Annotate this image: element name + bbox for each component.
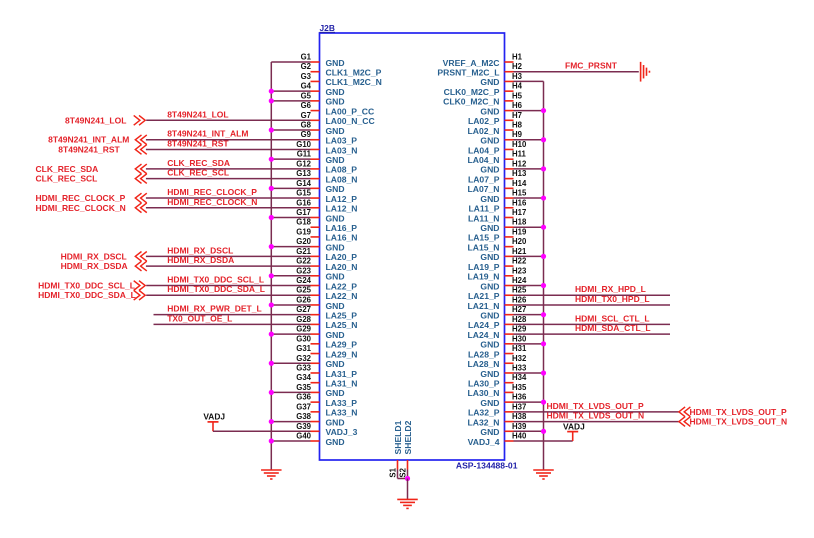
connector body J2B [320, 33, 505, 460]
junction dot H12 [541, 166, 546, 171]
wire GND H6 [514, 110, 544, 112]
svg-text:CLK_REC_SDA: CLK_REC_SDA [167, 158, 230, 168]
pin H8 stub [505, 129, 514, 131]
junction dot G5 [269, 98, 274, 103]
svg-text:G33: G33 [296, 363, 311, 372]
svg-text:HDMI_RX_DSCL: HDMI_RX_DSCL [61, 251, 127, 261]
pin H40 stub [505, 440, 514, 442]
svg-text:GND: GND [326, 359, 345, 369]
svg-text:GND: GND [326, 155, 345, 165]
pin H20 stub [505, 246, 514, 248]
svg-text:LA02_P: LA02_P [468, 116, 500, 126]
svg-text:HDMI_RX_HPD_L: HDMI_RX_HPD_L [575, 284, 646, 294]
svg-text:LA08_P: LA08_P [326, 165, 358, 175]
svg-text:VADJ_3: VADJ_3 [326, 427, 358, 437]
svg-text:LA19_P: LA19_P [468, 262, 500, 272]
wire GND G20 [271, 246, 310, 248]
pin G6 stub [311, 110, 320, 112]
svg-text:H34: H34 [512, 373, 527, 382]
svg-text:LA03_N: LA03_N [326, 145, 358, 155]
pin G16 stub [311, 207, 320, 209]
wire GND H15 [514, 197, 544, 199]
svg-text:H8: H8 [512, 121, 523, 130]
pin G26 stub [311, 304, 320, 306]
pin G36 stub [311, 401, 320, 403]
pin H16 stub [505, 207, 514, 209]
wire HDMI_TX0_DDC_SCL_L to G24 [146, 285, 310, 287]
svg-text:VADJ_4: VADJ_4 [468, 437, 500, 447]
wire shield join [398, 478, 408, 480]
svg-text:H9: H9 [512, 130, 523, 139]
pin G15 stub [311, 197, 320, 199]
svg-text:G4: G4 [301, 82, 312, 91]
pin G30 stub [311, 343, 320, 345]
pin G39 stub [311, 430, 320, 432]
wire TX0_OUT_OE_L to G28 [154, 323, 311, 325]
svg-text:CLK1_M2C_N: CLK1_M2C_N [326, 77, 382, 87]
svg-text:G37: G37 [296, 402, 311, 411]
svg-text:8T49N241_RST: 8T49N241_RST [167, 138, 229, 148]
svg-text:H36: H36 [512, 393, 527, 402]
svg-text:G24: G24 [296, 276, 311, 285]
junction dot H9 [541, 137, 546, 142]
pin H30 stub [505, 343, 514, 345]
svg-text:H21: H21 [512, 247, 527, 256]
svg-text:8T49N241_INT_ALM: 8T49N241_INT_ALM [167, 129, 248, 139]
junction dot G14 [269, 186, 274, 191]
pin G25 stub [311, 294, 320, 296]
pin H12 stub [505, 168, 514, 170]
junction dot G40 [269, 438, 274, 443]
svg-text:H33: H33 [512, 363, 527, 372]
svg-text:G5: G5 [301, 91, 312, 100]
svg-text:H6: H6 [512, 101, 523, 110]
wire HDMI_TX_LVDS_OUT_P from H37 [514, 411, 679, 413]
svg-text:H32: H32 [512, 354, 527, 363]
svg-text:LA04_P: LA04_P [468, 145, 500, 155]
pin H34 stub [505, 382, 514, 384]
svg-text:LA12_N: LA12_N [326, 204, 358, 214]
svg-text:GND: GND [326, 87, 345, 97]
left GND rail wire [270, 62, 272, 470]
svg-text:LA21_N: LA21_N [468, 301, 500, 311]
svg-text:H30: H30 [512, 334, 527, 343]
pin H28 stub [505, 323, 514, 325]
ground symbol bottom-right [533, 469, 554, 471]
pin H39 stub [505, 430, 514, 432]
wire GND H24 [514, 285, 544, 287]
wire GND G5 [271, 100, 310, 102]
wire GND G32 [271, 362, 310, 364]
svg-text:LA24_P: LA24_P [468, 320, 500, 330]
svg-text:G10: G10 [296, 140, 311, 149]
wire CLK_REC_SDA to G12 [146, 168, 311, 170]
svg-text:LA25_P: LA25_P [326, 310, 358, 320]
svg-text:LA21_P: LA21_P [468, 291, 500, 301]
junction dot H36 [541, 400, 546, 405]
junction dot G8 [269, 127, 274, 132]
svg-text:LA00_N_CC: LA00_N_CC [326, 116, 375, 126]
svg-text:LA22_N: LA22_N [326, 291, 358, 301]
pin H27 stub [505, 314, 514, 316]
svg-text:H10: H10 [512, 140, 527, 149]
pin H2 stub [505, 71, 514, 73]
pin H33 stub [505, 372, 514, 374]
wire VADJ to H40 [514, 440, 573, 442]
pin G9 stub [311, 139, 320, 141]
svg-text:LA32_N: LA32_N [468, 417, 500, 427]
pin G38 stub [311, 421, 320, 423]
pin H22 stub [505, 265, 514, 267]
pin G32 stub [311, 362, 320, 364]
svg-text:G9: G9 [301, 130, 312, 139]
wire GND H12 [514, 168, 544, 170]
svg-text:H17: H17 [512, 208, 526, 217]
svg-text:GND: GND [480, 106, 499, 116]
pin G14 stub [311, 187, 320, 189]
svg-text:GND: GND [326, 213, 345, 223]
svg-text:H23: H23 [512, 266, 527, 275]
pin G21 stub [311, 255, 320, 257]
junction dot H6 [541, 108, 546, 113]
svg-text:H7: H7 [512, 111, 522, 120]
svg-text:HDMI_REC_CLOCK_P: HDMI_REC_CLOCK_P [167, 187, 257, 197]
svg-text:G27: G27 [296, 305, 311, 314]
wire GND G40 [271, 440, 310, 442]
svg-text:GND: GND [326, 437, 345, 447]
wire HDMI_REC_CLOCK_N to G16 [146, 207, 311, 209]
wire GND H3 [514, 80, 544, 82]
svg-text:H29: H29 [512, 325, 527, 334]
svg-text:G39: G39 [296, 422, 311, 431]
svg-text:G2: G2 [301, 62, 312, 71]
wire GND G26 [271, 304, 310, 306]
svg-text:CLK0_M2C_P: CLK0_M2C_P [444, 87, 500, 97]
pin H5 stub [505, 100, 514, 102]
svg-text:H38: H38 [512, 412, 527, 421]
svg-text:H22: H22 [512, 257, 527, 266]
svg-text:8T49N241_INT_ALM: 8T49N241_INT_ALM [48, 135, 129, 145]
svg-text:LA28_N: LA28_N [468, 359, 500, 369]
junction dot G38 [269, 419, 274, 424]
svg-text:H5: H5 [512, 91, 523, 100]
svg-text:LA30_P: LA30_P [468, 378, 500, 388]
svg-text:G25: G25 [296, 286, 311, 295]
pin S2 stub [407, 460, 409, 470]
svg-text:8T49N241_LOL: 8T49N241_LOL [65, 115, 126, 125]
pin G8 stub [311, 129, 320, 131]
svg-text:G17: G17 [296, 208, 311, 217]
svg-text:G26: G26 [296, 295, 311, 304]
svg-text:GND: GND [480, 77, 499, 87]
junction dot H30 [541, 341, 546, 346]
svg-text:LA31_P: LA31_P [326, 369, 358, 379]
pin G29 stub [311, 333, 320, 335]
svg-text:LA29_N: LA29_N [326, 349, 358, 359]
svg-text:GND: GND [480, 223, 499, 233]
svg-text:H11: H11 [512, 150, 527, 159]
junction dot H39 [541, 429, 546, 434]
wire VADJ to G39 [213, 430, 311, 432]
wire HDMI_RX_PWR_DET_L to G27 [154, 314, 311, 316]
wire GND G14 [271, 187, 310, 189]
svg-text:GND: GND [480, 310, 499, 320]
pin G33 stub [311, 372, 320, 374]
pin G37 stub [311, 411, 320, 413]
pin G31 stub [311, 353, 320, 355]
svg-text:LA07_N: LA07_N [468, 184, 500, 194]
svg-text:CLK1_M2C_P: CLK1_M2C_P [326, 68, 382, 78]
svg-text:SHELD2: SHELD2 [403, 420, 413, 454]
svg-text:G35: G35 [296, 383, 311, 392]
pin G2 stub [311, 71, 320, 73]
svg-text:H3: H3 [512, 72, 523, 81]
pin H4 stub [505, 90, 514, 92]
svg-text:H13: H13 [512, 169, 527, 178]
svg-text:G14: G14 [296, 179, 311, 188]
svg-text:GND: GND [480, 136, 499, 146]
pin G20 stub [311, 246, 320, 248]
svg-text:LA16_P: LA16_P [326, 223, 358, 233]
wire GND H39 [514, 430, 544, 432]
junction dot G11 [269, 157, 274, 162]
pin H35 stub [505, 391, 514, 393]
pin H3 stub [505, 80, 514, 82]
svg-text:TX0_OUT_OE_L: TX0_OUT_OE_L [167, 313, 232, 323]
pin G24 stub [311, 285, 320, 287]
wire GND G11 [271, 158, 310, 160]
svg-text:G16: G16 [296, 198, 311, 207]
svg-text:G40: G40 [296, 432, 311, 441]
pin H11 stub [505, 158, 514, 160]
wire GND G17 [271, 216, 310, 218]
svg-text:CLK_REC_SCL: CLK_REC_SCL [36, 174, 98, 184]
svg-text:GND: GND [480, 340, 499, 350]
pin H29 stub [505, 333, 514, 335]
svg-text:GND: GND [326, 184, 345, 194]
wire HDMI_REC_CLOCK_P to G15 [146, 197, 311, 199]
wire GND H36 [514, 401, 544, 403]
pin G7 stub [311, 119, 320, 121]
svg-text:H39: H39 [512, 422, 527, 431]
ground symbol bottom-left [261, 469, 282, 471]
wire GND H21 [514, 255, 544, 257]
svg-text:H31: H31 [512, 344, 527, 353]
pin G35 stub [311, 391, 320, 393]
wire HDMI_TX0_DDC_SDA_L to G25 [146, 294, 310, 296]
svg-text:G22: G22 [296, 257, 311, 266]
wire GND G23 [271, 275, 310, 277]
svg-text:LA20_P: LA20_P [326, 252, 358, 262]
svg-text:LA20_N: LA20_N [326, 262, 358, 272]
svg-text:LA07_P: LA07_P [468, 174, 500, 184]
wire 8T49N241_RST to G10 [146, 148, 311, 150]
pin G19 stub [311, 236, 320, 238]
junction dot G26 [269, 302, 274, 307]
svg-text:H16: H16 [512, 198, 527, 207]
svg-text:G18: G18 [296, 218, 311, 227]
svg-text:G23: G23 [296, 266, 311, 275]
svg-text:H28: H28 [512, 315, 527, 324]
svg-text:HDMI_TX0_DDC_SDA_L: HDMI_TX0_DDC_SDA_L [38, 290, 136, 300]
junction dot H18 [541, 225, 546, 230]
svg-text:H40: H40 [512, 432, 527, 441]
svg-text:G7: G7 [301, 111, 311, 120]
svg-text:H1: H1 [512, 53, 523, 62]
pin G13 stub [311, 178, 320, 180]
svg-text:G29: G29 [296, 325, 311, 334]
svg-text:CLK_REC_SCL: CLK_REC_SCL [167, 168, 229, 178]
svg-text:H26: H26 [512, 295, 527, 304]
svg-text:HDMI_REC_CLOCK_P: HDMI_REC_CLOCK_P [36, 193, 126, 203]
svg-text:HDMI_TX0_DDC_SCL_L: HDMI_TX0_DDC_SCL_L [38, 281, 135, 291]
svg-text:G32: G32 [296, 354, 311, 363]
pin H26 stub [505, 304, 514, 306]
svg-text:G13: G13 [296, 169, 311, 178]
svg-text:GND: GND [326, 417, 345, 427]
junction dot G32 [269, 361, 274, 366]
junction dot G20 [269, 244, 274, 249]
svg-text:H4: H4 [512, 82, 523, 91]
pin H21 stub [505, 255, 514, 257]
svg-text:HDMI_RX_DSCL: HDMI_RX_DSCL [167, 245, 233, 255]
svg-text:LA16_N: LA16_N [326, 233, 358, 243]
wire HDMI_TX0_HPD_L from H26 [514, 304, 671, 306]
svg-text:G15: G15 [296, 189, 311, 198]
off-page port HDMI_TX_LVDS_OUT_N [679, 417, 685, 427]
pin G17 stub [311, 216, 320, 218]
pin H1 stub [505, 61, 514, 63]
wire HDMI_RX_DSDA to G22 [146, 265, 311, 267]
svg-text:G30: G30 [296, 334, 311, 343]
svg-text:GND: GND [480, 194, 499, 204]
svg-text:HDMI_RX_DSDA: HDMI_RX_DSDA [167, 255, 234, 265]
wire FMC_PRSNT from H2 [514, 71, 639, 73]
ground symbol FMC_PRSNT (rotated) [640, 62, 642, 82]
pin G27 stub [311, 314, 320, 316]
svg-text:H14: H14 [512, 179, 527, 188]
svg-text:HDMI_TX_LVDS_OUT_P: HDMI_TX_LVDS_OUT_P [690, 407, 787, 417]
junction dot G4 [269, 89, 274, 94]
svg-text:H35: H35 [512, 383, 527, 392]
pin H32 stub [505, 362, 514, 364]
pin G23 stub [311, 275, 320, 277]
svg-text:LA33_N: LA33_N [326, 408, 358, 418]
svg-text:G20: G20 [296, 237, 311, 246]
svg-text:CLK_REC_SDA: CLK_REC_SDA [36, 164, 99, 174]
svg-text:G36: G36 [296, 393, 311, 402]
svg-text:H2: H2 [512, 62, 523, 71]
junction dot H27 [541, 312, 546, 317]
junction dot G23 [269, 273, 274, 278]
svg-text:GND: GND [326, 58, 345, 68]
svg-text:J2B: J2B [320, 23, 335, 33]
svg-text:GND: GND [326, 388, 345, 398]
svg-text:GND: GND [326, 97, 345, 107]
wire GND G35 [271, 391, 310, 393]
pin H13 stub [505, 178, 514, 180]
svg-text:GND: GND [326, 126, 345, 136]
svg-text:FMC_PRSNT: FMC_PRSNT [565, 61, 618, 71]
svg-text:GND: GND [326, 330, 345, 340]
right GND rail wire [543, 81, 545, 470]
pin H19 stub [505, 236, 514, 238]
wire GND G29 [271, 333, 310, 335]
svg-text:LA00_P_CC: LA00_P_CC [326, 106, 375, 116]
svg-text:LA24_N: LA24_N [468, 330, 500, 340]
pin H7 stub [505, 119, 514, 121]
pin G22 stub [311, 265, 320, 267]
svg-text:GND: GND [480, 165, 499, 175]
svg-text:G12: G12 [296, 159, 311, 168]
pin G11 stub [311, 158, 320, 160]
svg-text:H20: H20 [512, 237, 527, 246]
svg-text:VADJ: VADJ [563, 421, 585, 431]
svg-text:G21: G21 [296, 247, 311, 256]
svg-text:SHELD1: SHELD1 [393, 420, 403, 454]
pin G12 stub [311, 168, 320, 170]
pin H37 stub [505, 411, 514, 413]
svg-text:LA02_N: LA02_N [468, 126, 500, 136]
wire GND H33 [514, 372, 544, 374]
svg-text:H18: H18 [512, 218, 527, 227]
wire GND G1 [271, 61, 310, 63]
junction dot H21 [541, 254, 546, 259]
svg-text:G6: G6 [301, 101, 312, 110]
svg-text:H27: H27 [512, 305, 526, 314]
svg-text:HDMI_SDA_CTL_L: HDMI_SDA_CTL_L [575, 323, 651, 333]
pin H15 stub [505, 197, 514, 199]
wire GND H9 [514, 139, 544, 141]
svg-text:G34: G34 [296, 373, 311, 382]
pin H31 stub [505, 353, 514, 355]
svg-text:HDMI_SCL_CTL_L: HDMI_SCL_CTL_L [575, 313, 650, 323]
svg-text:LA30_N: LA30_N [468, 388, 500, 398]
svg-text:LA31_N: LA31_N [326, 378, 358, 388]
svg-text:GND: GND [326, 272, 345, 282]
pin G34 stub [311, 382, 320, 384]
svg-text:HDMI_TX0_HPD_L: HDMI_TX0_HPD_L [575, 294, 650, 304]
svg-text:LA15_P: LA15_P [468, 233, 500, 243]
svg-text:HDMI_TX0_DDC_SDA_L: HDMI_TX0_DDC_SDA_L [167, 284, 265, 294]
svg-text:G28: G28 [296, 315, 311, 324]
svg-text:LA22_P: LA22_P [326, 281, 358, 291]
svg-text:G1: G1 [301, 53, 312, 62]
svg-text:LA28_P: LA28_P [468, 349, 500, 359]
svg-text:LA11_N: LA11_N [468, 213, 500, 223]
pin H36 stub [505, 401, 514, 403]
pin H6 stub [505, 110, 514, 112]
wire GND G4 [271, 90, 310, 92]
svg-text:HDMI_TX0_DDC_SCL_L: HDMI_TX0_DDC_SCL_L [167, 275, 264, 285]
pin H14 stub [505, 187, 514, 189]
svg-text:LA08_N: LA08_N [326, 174, 358, 184]
svg-text:H19: H19 [512, 227, 527, 236]
pin G40 stub [311, 440, 320, 442]
svg-text:H25: H25 [512, 286, 527, 295]
svg-text:GND: GND [480, 252, 499, 262]
pin G28 stub [311, 323, 320, 325]
svg-text:GND: GND [326, 242, 345, 252]
svg-text:LA33_P: LA33_P [326, 398, 358, 408]
svg-text:LA29_P: LA29_P [326, 340, 358, 350]
pin H18 stub [505, 226, 514, 228]
svg-text:S2: S2 [399, 467, 408, 477]
svg-text:S1: S1 [389, 467, 398, 477]
svg-text:H37: H37 [512, 402, 526, 411]
svg-text:HDMI_TX_LVDS_OUT_N: HDMI_TX_LVDS_OUT_N [547, 411, 645, 421]
svg-text:LA15_N: LA15_N [468, 242, 500, 252]
